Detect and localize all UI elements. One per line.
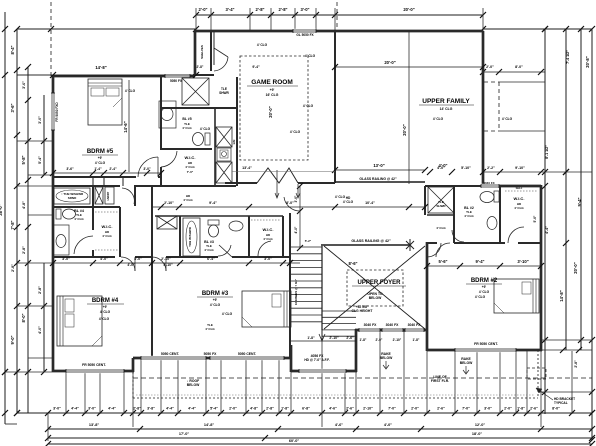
window top wall bdrm5 tub niche bbox=[165, 74, 190, 78]
door arc wic right bbox=[508, 227, 524, 243]
interior wall bath row top bbox=[155, 215, 283, 217]
svg-text:1'-8": 1'-8" bbox=[281, 407, 289, 411]
bed bdrm5 bbox=[88, 79, 122, 125]
svg-text:38'-0": 38'-0" bbox=[0, 204, 3, 215]
left outer dimension line bbox=[4, 12, 6, 424]
wic3 shelves dotted bbox=[251, 219, 281, 221]
svg-text:SRND: SRND bbox=[68, 196, 77, 200]
svg-text:8'-0": 8'-0" bbox=[21, 313, 26, 322]
svg-text:3'-0": 3'-0" bbox=[88, 407, 96, 411]
bottom dimension row3 bbox=[48, 437, 592, 439]
svg-text:FIRST FLR.: FIRST FLR. bbox=[431, 379, 449, 383]
toilet bl4 bbox=[56, 209, 61, 219]
svg-text:4' CLG: 4' CLG bbox=[210, 303, 221, 307]
svg-text:4'-0": 4'-0" bbox=[437, 166, 445, 170]
svg-text:5050 CENT.: 5050 CENT. bbox=[238, 352, 257, 356]
exterior wall top bbox=[194, 30, 483, 33]
interior wall midband vertical x180 bbox=[179, 216, 181, 257]
svg-text:UPPER FAMILY: UPPER FAMILY bbox=[422, 98, 470, 105]
hall closet sawtooth bbox=[257, 168, 298, 183]
interior wall upper family west bbox=[334, 31, 336, 183]
svg-text:8'-0": 8'-0" bbox=[515, 65, 523, 69]
dim row bedrooms y263 bbox=[53, 262, 300, 264]
wic2 shelving dotted bbox=[505, 190, 538, 192]
svg-text:4' CLG: 4' CLG bbox=[514, 206, 524, 210]
svg-text:6'-8": 6'-8" bbox=[302, 407, 310, 411]
dim row bdrm5 closet y172 bbox=[53, 172, 161, 174]
svg-text:2'-0": 2'-0" bbox=[376, 338, 383, 342]
svg-text:10'-4": 10'-4" bbox=[365, 201, 375, 205]
svg-text:16 RISERS @ 7 3/4": 16 RISERS @ 7 3/4" bbox=[294, 278, 298, 305]
interior wall midband vertical x249 bbox=[248, 216, 250, 257]
svg-text:5'-6": 5'-6" bbox=[438, 259, 447, 264]
bed bdrm2 bbox=[494, 279, 539, 313]
shower bl2 tle bbox=[428, 187, 454, 213]
svg-text:20'-0": 20'-0" bbox=[403, 7, 414, 12]
svg-text:1'-8": 1'-8" bbox=[307, 336, 315, 340]
svg-text:2'-8": 2'-8" bbox=[133, 407, 141, 411]
interior wall bedroom row top bbox=[53, 256, 115, 258]
svg-text:20'-0": 20'-0" bbox=[384, 60, 395, 65]
interior wall bdrm5 south bbox=[53, 176, 136, 178]
left dimension line 3 bbox=[27, 67, 29, 413]
line of first floor dashed bbox=[133, 377, 592, 379]
svg-text:2'-10": 2'-10" bbox=[329, 336, 339, 340]
svg-text:W.I.C.: W.I.C. bbox=[263, 227, 274, 232]
dim row bdrm2 y266 bbox=[427, 265, 541, 267]
svg-text:4' CLG: 4' CLG bbox=[303, 104, 314, 108]
interior wall bdrm5 east bbox=[160, 76, 162, 150]
svg-text:3'-6": 3'-6" bbox=[66, 167, 74, 171]
svg-text:4'-4": 4'-4" bbox=[166, 407, 174, 411]
top extension verticals bbox=[195, 8, 197, 31]
svg-text:13'-4": 13'-4" bbox=[242, 166, 252, 170]
hd bracket dashed box bbox=[527, 368, 546, 379]
svg-text:4' CLG: 4' CLG bbox=[74, 217, 84, 221]
svg-text:4' CLG: 4' CLG bbox=[205, 327, 215, 331]
dim 13-0 family south bbox=[335, 169, 425, 171]
interior wall closet bottom bbox=[193, 74, 214, 76]
svg-text:2'-0": 2'-0" bbox=[229, 407, 237, 411]
svg-text:2'-4": 2'-4" bbox=[109, 167, 117, 171]
svg-text:4'-8": 4'-8" bbox=[250, 407, 258, 411]
svg-text:4' CLG: 4' CLG bbox=[343, 200, 354, 204]
svg-text:4' CLG: 4' CLG bbox=[102, 234, 112, 238]
svg-text:+9': +9' bbox=[213, 298, 218, 302]
svg-text:60'-0": 60'-0" bbox=[289, 439, 300, 443]
svg-text:1'-8": 1'-8" bbox=[360, 338, 367, 342]
svg-text:UPPER FOYER: UPPER FOYER bbox=[357, 280, 401, 286]
svg-text:2'-10": 2'-10" bbox=[161, 257, 171, 261]
interior wall bdrm3 east stairwell bbox=[289, 213, 291, 358]
svg-text:5'-10": 5'-10" bbox=[461, 166, 471, 170]
exterior wall step bdrm4 bbox=[132, 358, 135, 372]
svg-text:2'-8": 2'-8" bbox=[197, 65, 204, 69]
svg-text:20'-8": 20'-8" bbox=[585, 56, 590, 67]
exterior wall foyer south windows bbox=[355, 329, 427, 332]
interior wall bath bl5 bottom bbox=[161, 148, 212, 150]
staircase rail line bbox=[321, 246, 323, 341]
svg-text:2'-0": 2'-0" bbox=[504, 407, 512, 411]
svg-text:BELOW: BELOW bbox=[460, 361, 473, 365]
svg-text:5'-4": 5'-4" bbox=[38, 156, 42, 164]
svg-text:20'-0": 20'-0" bbox=[402, 124, 407, 135]
dim vertical hall east bbox=[299, 186, 301, 248]
interior wall bdrm2 top bbox=[427, 242, 437, 244]
svg-text:W.I.C.: W.I.C. bbox=[185, 155, 196, 160]
door arc wic mid from bdrm5 bbox=[161, 151, 177, 167]
door arc game room closet bbox=[214, 48, 228, 57]
exterior wall left bbox=[52, 75, 55, 372]
svg-text:2'-10": 2'-10" bbox=[393, 338, 402, 342]
svg-text:GAME ROOM: GAME ROOM bbox=[251, 79, 293, 86]
window bdrm3 bottom 1 bbox=[141, 356, 206, 360]
exterior wall bdrm2 bottom bbox=[427, 349, 542, 352]
window landing bottom bbox=[299, 369, 346, 373]
svg-text:8'-6": 8'-6" bbox=[348, 261, 357, 266]
svg-text:BELOW: BELOW bbox=[380, 356, 393, 360]
interior wall bath cluster vertical x454 bbox=[453, 186, 455, 243]
staircase direction arrow bbox=[321, 300, 323, 338]
svg-text:3040 FX: 3040 FX bbox=[386, 323, 400, 327]
hall leader arrows bbox=[276, 170, 278, 197]
right extension lines bbox=[541, 339, 592, 341]
bottom dimension row2 bbox=[48, 428, 592, 430]
bottom dimension row1 bbox=[17, 412, 592, 414]
svg-text:9'-0": 9'-0" bbox=[10, 335, 15, 344]
svg-text:2'-0": 2'-0" bbox=[486, 65, 494, 69]
svg-text:3040 FX: 3040 FX bbox=[364, 323, 378, 327]
svg-text:4' CLG: 4' CLG bbox=[185, 165, 195, 169]
svg-text:BL #5: BL #5 bbox=[182, 117, 191, 121]
svg-text:LNDRY: LNDRY bbox=[106, 191, 110, 200]
svg-text:9'-4": 9'-4" bbox=[209, 201, 217, 205]
svg-text:4' CLG: 4' CLG bbox=[125, 89, 136, 93]
svg-text:4'-4": 4'-4" bbox=[188, 407, 196, 411]
svg-text:8'-4": 8'-4" bbox=[10, 45, 15, 54]
svg-text:SHWR: SHWR bbox=[219, 91, 229, 95]
svg-text:4' CLG: 4' CLG bbox=[290, 130, 301, 134]
svg-text:+9': +9' bbox=[270, 88, 275, 92]
svg-text:BDRM #5: BDRM #5 bbox=[87, 149, 114, 155]
svg-text:5050 FX: 5050 FX bbox=[204, 352, 218, 356]
tub bl4 bbox=[54, 188, 90, 204]
svg-text:W.I.C.: W.I.C. bbox=[102, 224, 113, 229]
svg-text:4'-6": 4'-6" bbox=[335, 423, 343, 427]
interior wall midband vertical x283 bbox=[282, 216, 284, 257]
svg-text:2'-10": 2'-10" bbox=[164, 201, 174, 205]
svg-text:1'-8": 1'-8" bbox=[413, 338, 420, 342]
cabinet bowtie hall bbox=[157, 216, 177, 229]
exterior wall right bbox=[540, 185, 543, 351]
top dimension line row1 bbox=[196, 14, 483, 16]
svg-text:3'-0": 3'-0" bbox=[143, 167, 151, 171]
dim row y171 hall thin bbox=[232, 171, 335, 173]
svg-text:17'-0": 17'-0" bbox=[179, 432, 190, 436]
door arc bdrm3 bbox=[152, 257, 166, 271]
svg-text:2'-8": 2'-8" bbox=[38, 286, 42, 294]
svg-text:14'-8": 14'-8" bbox=[559, 290, 564, 301]
svg-text:SHLF: SHLF bbox=[516, 186, 523, 190]
exterior wall landing left bbox=[290, 345, 293, 372]
svg-text:2'-0": 2'-0" bbox=[411, 407, 419, 411]
svg-text:2'-6": 2'-6" bbox=[530, 407, 538, 411]
svg-text:8'-1 1/2": 8'-1 1/2" bbox=[545, 145, 549, 159]
svg-text:5'-10": 5'-10" bbox=[163, 263, 173, 267]
dim row right bath y172 bbox=[427, 169, 433, 175]
door arc bdrm5 bbox=[138, 157, 158, 177]
staircase treads upper flight bbox=[291, 246, 322, 248]
interior wall shower east x425 bbox=[424, 186, 426, 215]
interior wall midband wic4 top bbox=[93, 206, 120, 208]
linen xbox left bbox=[95, 187, 103, 204]
cabinet strip with sink game room bbox=[216, 127, 232, 147]
interior wall bath cluster vertical x500 bbox=[499, 186, 501, 242]
shower tle top bbox=[182, 78, 209, 105]
svg-text:BDRM #3: BDRM #3 bbox=[202, 291, 229, 297]
window top wall game room bbox=[293, 29, 316, 33]
svg-text:+9': +9' bbox=[98, 156, 103, 160]
svg-text:4'-0": 4'-0" bbox=[100, 257, 108, 261]
window left wall bdrm5 bbox=[51, 93, 55, 130]
door arc bdrm2 bbox=[427, 243, 441, 257]
svg-text:3'-0": 3'-0" bbox=[264, 257, 272, 261]
svg-text:5'-8": 5'-8" bbox=[21, 155, 26, 164]
svg-text:4040 FX: 4040 FX bbox=[483, 181, 494, 185]
svg-text:8'-0": 8'-0" bbox=[552, 407, 560, 411]
svg-text:2'-6": 2'-6" bbox=[346, 336, 354, 340]
window bdrm2 bottom bbox=[455, 348, 516, 352]
svg-text:5'-4": 5'-4" bbox=[210, 407, 218, 411]
svg-text:+9': +9' bbox=[482, 285, 487, 289]
interior wall midband vertical x120 bbox=[119, 207, 121, 257]
svg-text:4' CLG: 4' CLG bbox=[436, 226, 446, 230]
exterior wall step left of game room bbox=[194, 31, 197, 76]
interior wall midband vertical x152up bbox=[151, 186, 153, 257]
svg-text:W.I.C.: W.I.C. bbox=[514, 196, 525, 201]
svg-text:13'-8": 13'-8" bbox=[89, 423, 100, 427]
svg-text:4' CLG: 4' CLG bbox=[479, 290, 490, 294]
interior wall game room west upper closet bbox=[210, 31, 212, 71]
svg-text:12'-0": 12'-0" bbox=[475, 423, 486, 427]
left dimension line 4 segments bbox=[43, 95, 45, 175]
svg-text:4'-8": 4'-8" bbox=[22, 201, 26, 209]
vanity bl4 bbox=[53, 225, 69, 255]
dim row hall y207 bbox=[153, 206, 425, 208]
interior wall cabinet strip east bbox=[214, 108, 216, 186]
dim overhang right bbox=[483, 71, 545, 73]
svg-text:4' CLG: 4' CLG bbox=[502, 117, 513, 121]
top dimension line row2 left bbox=[17, 28, 196, 30]
svg-text:SHWR: SHWR bbox=[436, 204, 446, 208]
svg-text:+9': +9' bbox=[103, 305, 108, 309]
left extension lines bbox=[17, 74, 53, 76]
toilet bl2 bbox=[480, 192, 494, 203]
svg-text:3'-4": 3'-4" bbox=[225, 7, 234, 12]
svg-text:4' CLG: 4' CLG bbox=[222, 312, 233, 316]
interior wall alcove left x135 bbox=[134, 186, 136, 206]
door arc wic4 entry bbox=[122, 188, 134, 204]
interior wall game room west bbox=[236, 77, 238, 186]
svg-text:2'-8": 2'-8" bbox=[278, 7, 287, 12]
interior wall foyer west rail bbox=[321, 246, 323, 330]
svg-text:SHELVES: SHELVES bbox=[200, 45, 204, 59]
dim vertical bdrm5 bbox=[128, 80, 130, 172]
game room dashed ceiling rect bbox=[240, 56, 308, 160]
svg-text:4'-4": 4'-4" bbox=[545, 226, 549, 234]
bottom extension verticals bbox=[47, 413, 49, 441]
svg-text:4'-0": 4'-0" bbox=[134, 257, 142, 261]
linen strip hall bbox=[216, 162, 232, 183]
window bdrm4 bottom bbox=[66, 369, 124, 373]
svg-text:2'-8": 2'-8" bbox=[266, 407, 274, 411]
svg-text:4' CLG: 4' CLG bbox=[475, 295, 486, 299]
svg-text:3'-0": 3'-0" bbox=[62, 257, 70, 261]
svg-text:4'-0": 4'-0" bbox=[38, 326, 42, 334]
svg-text:BDRM #2: BDRM #2 bbox=[471, 278, 498, 284]
wic4 shelves dotted bbox=[95, 211, 119, 213]
svg-text:3'-8": 3'-8" bbox=[147, 407, 155, 411]
svg-text:16' CLG: 16' CLG bbox=[266, 93, 279, 97]
svg-text:9'-10": 9'-10" bbox=[515, 166, 525, 170]
svg-text:3'-6": 3'-6" bbox=[10, 103, 15, 112]
svg-text:2'-10": 2'-10" bbox=[363, 407, 373, 411]
svg-text:20'-0": 20'-0" bbox=[573, 262, 578, 273]
svg-text:GL 5050 FX: GL 5050 FX bbox=[296, 33, 314, 37]
room below shower bbox=[427, 214, 454, 216]
door arc wic3 bbox=[258, 241, 271, 256]
door arc bdrm4 bbox=[121, 257, 135, 271]
svg-text:5'-6": 5'-6" bbox=[533, 215, 537, 222]
svg-text:20'-0": 20'-0" bbox=[268, 106, 273, 117]
interior wall hall north bbox=[53, 185, 120, 187]
svg-text:9'-4": 9'-4" bbox=[475, 259, 484, 264]
interior wall hall south sawtooth segment bbox=[225, 182, 257, 184]
svg-text:HD @ 7'-0" A.F.F.: HD @ 7'-0" A.F.F. bbox=[304, 358, 329, 362]
svg-text:1'-4": 1'-4" bbox=[94, 167, 102, 171]
exterior wall landing right bbox=[355, 329, 358, 372]
interior wall midband vertical x93 bbox=[92, 186, 94, 230]
svg-text:5050 FX: 5050 FX bbox=[170, 79, 183, 83]
svg-text:14' CLG: 14' CLG bbox=[440, 107, 453, 111]
svg-text:4' CLG: 4' CLG bbox=[464, 214, 474, 218]
window bdrm3 bottom 2 bbox=[210, 356, 284, 360]
glass railing hall bbox=[335, 181, 425, 183]
svg-text:2'-8": 2'-8" bbox=[11, 264, 15, 272]
svg-text:4'-0": 4'-0" bbox=[384, 423, 392, 427]
svg-text:9'-4": 9'-4" bbox=[252, 65, 260, 69]
laundry chute bbox=[105, 187, 114, 204]
svg-text:4' CLG: 4' CLG bbox=[99, 317, 110, 321]
exterior wall landing bottom bbox=[291, 370, 357, 373]
svg-text:4' CLG: 4' CLG bbox=[257, 43, 268, 47]
toilet bl3 bbox=[208, 220, 219, 225]
wall tub bottom bbox=[53, 206, 120, 208]
svg-text:2'-0": 2'-0" bbox=[198, 7, 207, 12]
svg-text:TUB W/SHWR: TUB W/SHWR bbox=[188, 226, 192, 247]
svg-text:2'-6": 2'-6" bbox=[346, 407, 354, 411]
porch deck dotted edge bbox=[133, 397, 538, 399]
bed bdrm3 bbox=[242, 291, 291, 327]
top dimension line row2 right bbox=[483, 28, 592, 30]
interior wall bdrm3-4 divider bbox=[151, 257, 153, 358]
svg-text:4' CLG: 4' CLG bbox=[263, 237, 273, 241]
glass railing foyer bbox=[321, 244, 410, 246]
svg-text:BELOW: BELOW bbox=[369, 296, 382, 300]
exterior wall right upper family bbox=[482, 31, 485, 186]
exterior wall bdrm2 left lower bbox=[426, 242, 429, 351]
svg-text:4' CLG: 4' CLG bbox=[305, 54, 316, 58]
svg-text:2'-2": 2'-2" bbox=[487, 166, 495, 170]
dim 20-0 upper family horizontal bbox=[335, 66, 483, 68]
door arc hall to game room bbox=[284, 197, 300, 211]
foyer open-to-below dashed rect bbox=[347, 270, 403, 306]
exterior wall wic top bbox=[483, 185, 541, 188]
toilet bath bl5 top bbox=[193, 133, 204, 146]
svg-text:TYPICAL: TYPICAL bbox=[554, 401, 568, 405]
bottom dimension row4 total bbox=[48, 443, 592, 445]
svg-text:5050 CENT.: 5050 CENT. bbox=[161, 352, 180, 356]
exterior wall top-left bedroom5 bbox=[53, 75, 195, 78]
top dashed projection lines bbox=[50, 2, 52, 77]
sink bl3 bbox=[229, 221, 243, 231]
svg-text:3'-0": 3'-0" bbox=[38, 116, 42, 124]
svg-text:13'-0": 13'-0" bbox=[373, 163, 384, 168]
upper foyer open-below X bbox=[324, 246, 425, 329]
svg-text:3040 FX: 3040 FX bbox=[408, 323, 422, 327]
svg-text:2'-8": 2'-8" bbox=[22, 246, 26, 254]
staircase bottom landing walls bbox=[291, 340, 356, 342]
svg-text:6'-4": 6'-4" bbox=[207, 257, 215, 261]
svg-text:7'-0": 7'-0" bbox=[187, 170, 194, 174]
bdrm5 closet partitions bbox=[92, 178, 94, 186]
svg-text:LIN: LIN bbox=[232, 140, 236, 145]
svg-text:4' CLG: 4' CLG bbox=[182, 126, 192, 130]
svg-text:3'-0": 3'-0" bbox=[53, 407, 61, 411]
svg-text:4' CLG: 4' CLG bbox=[183, 198, 193, 202]
sink bl5 corner bbox=[159, 101, 176, 128]
svg-text:4' CLG: 4' CLG bbox=[200, 127, 211, 131]
svg-text:3'-0": 3'-0" bbox=[300, 7, 309, 12]
exterior wall bdrm4 bottom bbox=[53, 370, 134, 373]
svg-text:3'-6": 3'-6" bbox=[22, 81, 26, 89]
svg-text:4' CLG: 4' CLG bbox=[204, 248, 214, 252]
svg-text:14'-8": 14'-8" bbox=[95, 65, 106, 70]
svg-text:GLASS RAILING @ 42": GLASS RAILING @ 42" bbox=[351, 239, 391, 243]
exterior wall bdrm3 bottom bbox=[133, 357, 291, 360]
svg-text:7'-8": 7'-8" bbox=[10, 220, 15, 229]
svg-text:4'-0": 4'-0" bbox=[127, 263, 135, 267]
svg-text:FR 5050 CENT.: FR 5050 CENT. bbox=[82, 363, 106, 367]
svg-text:2'-8": 2'-8" bbox=[574, 360, 578, 368]
interior wall tub room bottom bbox=[161, 107, 237, 109]
svg-text:4' CLG: 4' CLG bbox=[100, 310, 111, 314]
svg-text:BELOW: BELOW bbox=[187, 383, 200, 387]
svg-text:1'-8": 1'-8" bbox=[517, 407, 525, 411]
svg-text:4'-4": 4'-4" bbox=[108, 407, 116, 411]
svg-text:8'-0": 8'-0" bbox=[286, 201, 294, 205]
svg-text:4'-6": 4'-6" bbox=[329, 407, 337, 411]
svg-text:4' CLG: 4' CLG bbox=[433, 117, 444, 121]
svg-text:14'-6": 14'-6" bbox=[123, 121, 128, 132]
windows foyer south bbox=[359, 328, 380, 332]
dim 14-8 above bdrm5 bbox=[17, 74, 196, 76]
bed bdrm4 bbox=[57, 296, 102, 346]
interior wall bath cluster top right bbox=[425, 185, 483, 187]
upper family roof overhang dashed bbox=[484, 81, 499, 83]
svg-text:14'-8": 14'-8" bbox=[204, 423, 215, 427]
svg-text:GLASS RAILING @ 42": GLASS RAILING @ 42" bbox=[359, 177, 397, 181]
